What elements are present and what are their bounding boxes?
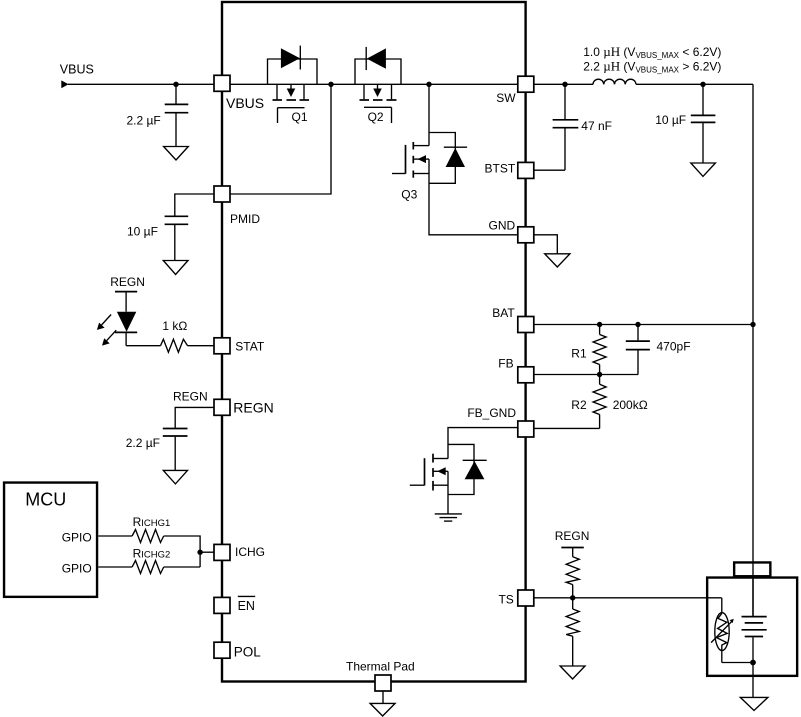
wire REGN cap	[175, 407, 214, 428]
wire GPIO1	[98, 535, 132, 537]
node junction battery negative	[750, 660, 756, 666]
svg-text:RICHG1: RICHG1	[133, 515, 171, 529]
node junction BAT/R1	[597, 322, 602, 327]
wire rail into battery	[752, 576, 754, 616]
wire FB_GND internal	[448, 428, 518, 459]
inductor L1	[565, 83, 593, 85]
svg-text:2.2 µF: 2.2 µF	[127, 113, 161, 127]
svg-text:470pF: 470pF	[657, 339, 691, 353]
battery pack box	[707, 578, 797, 676]
input arrow	[61, 80, 68, 88]
capacitor 2.2uF input	[175, 84, 177, 103]
node junction BAT/470pF	[635, 322, 640, 327]
MCU box	[4, 483, 97, 597]
ground battery	[740, 697, 768, 710]
ground thermal pad	[370, 703, 395, 716]
node junction VBUS/C1	[173, 82, 178, 87]
svg-text:BAT: BAT	[492, 306, 515, 320]
svg-text:FB: FB	[498, 357, 513, 371]
ground output cap	[691, 163, 716, 176]
transistor Q3 body diode	[429, 133, 467, 184]
transistor Q2 body diode	[355, 47, 401, 84]
svg-text:GPIO: GPIO	[62, 562, 92, 576]
node junction L1/10uF	[700, 82, 705, 87]
svg-text:GPIO: GPIO	[62, 531, 92, 545]
svg-text:47 nF: 47 nF	[581, 119, 612, 133]
svg-text:ICHG: ICHG	[235, 545, 265, 559]
resistor R2	[593, 375, 606, 429]
svg-text:REGN: REGN	[555, 529, 590, 543]
ground GND pin	[545, 254, 570, 267]
pin Thermal Pad	[375, 675, 391, 691]
wire GND external	[534, 235, 557, 254]
wire Q4 source to ground	[447, 471, 449, 513]
wire RICHG1 to junction	[164, 536, 200, 567]
capacitor 10uF PMID	[165, 215, 189, 217]
pin PMID	[214, 186, 230, 202]
wire FB_GND external	[534, 427, 600, 429]
pin ICHG	[214, 544, 230, 560]
wire FB	[534, 374, 639, 376]
svg-text:R2: R2	[571, 398, 587, 412]
resistor RT1	[566, 548, 579, 598]
wire LED to R3	[126, 345, 160, 347]
wire TS	[534, 597, 722, 599]
transistor Q1	[273, 84, 310, 123]
svg-text:Q2: Q2	[368, 110, 384, 124]
battery cell BT1	[742, 617, 767, 698]
resistor RICHG1	[132, 530, 164, 543]
pin TS	[518, 590, 534, 606]
svg-text:REGN: REGN	[233, 400, 273, 416]
wire BTST	[534, 169, 565, 171]
capacitor 2.2uF REGN	[163, 428, 188, 430]
svg-text:Q1: Q1	[292, 110, 308, 124]
pin REGN	[214, 399, 230, 415]
svg-text:BTST: BTST	[485, 162, 516, 176]
pin GND	[518, 227, 534, 243]
node junction rail/BAT	[750, 322, 755, 327]
LED D1	[115, 292, 137, 346]
svg-text:MCU: MCU	[25, 489, 66, 509]
svg-text:VBUS: VBUS	[60, 62, 94, 76]
ground TS divider	[560, 666, 585, 679]
capacitor 470pF	[626, 325, 650, 375]
svg-text:TS: TS	[498, 592, 513, 606]
ground input cap	[164, 147, 189, 161]
power rail REGN LED	[115, 291, 137, 293]
transistor Q4 body diode	[448, 444, 487, 494]
svg-text:STAT: STAT	[235, 340, 265, 354]
svg-text:PMID: PMID	[230, 212, 260, 226]
power rail REGN TS	[561, 547, 584, 549]
resistor RT2	[566, 598, 579, 666]
ground REGN cap	[163, 470, 187, 484]
pin BTST	[518, 162, 534, 178]
wire GPIO2	[98, 566, 132, 568]
capacitor 47nF	[564, 84, 566, 119]
wire junction to ICHG pin	[200, 551, 214, 553]
svg-text:10 µF: 10 µF	[655, 113, 686, 127]
svg-text:GND: GND	[489, 219, 516, 233]
svg-text:REGN: REGN	[173, 390, 208, 404]
LED arrow 1	[97, 315, 111, 330]
svg-text:REGN: REGN	[110, 275, 145, 289]
IC body U1	[222, 2, 526, 682]
EN overline	[238, 595, 255, 597]
wire VBUS input	[68, 83, 214, 85]
svg-text:SW: SW	[496, 91, 516, 105]
pin STAT	[214, 338, 230, 354]
resistor RICHG2	[132, 561, 164, 574]
svg-text:1 kΩ: 1 kΩ	[162, 319, 187, 333]
wire right rail SYS	[752, 84, 754, 616]
wire SW external	[534, 83, 565, 85]
thermistor RT	[711, 598, 753, 663]
transistor Q1 body diode	[268, 46, 318, 85]
svg-text:10 µF: 10 µF	[127, 225, 158, 239]
svg-text:R1: R1	[571, 347, 587, 361]
resistor 1 kOhm	[161, 339, 188, 352]
transistor Q2	[360, 84, 397, 123]
transistor Q3	[392, 142, 429, 178]
pin FB_GND	[518, 421, 534, 437]
wire R3 to STAT	[188, 345, 214, 347]
pin VBUS	[214, 75, 230, 91]
LED arrow 2	[102, 330, 116, 345]
wire RICHG2 to junction	[164, 566, 200, 568]
svg-text:FB_GND: FB_GND	[467, 406, 516, 420]
svg-text:EN: EN	[238, 599, 255, 613]
pin BAT	[518, 317, 534, 333]
node junction TS	[570, 595, 575, 600]
pin EN	[214, 597, 230, 613]
svg-text:RICHG2: RICHG2	[133, 547, 171, 561]
svg-text:2.2 µF: 2.2 µF	[126, 436, 160, 450]
wire thermal pad ground	[382, 691, 384, 703]
wire top rail inside IC	[230, 83, 518, 85]
node junction FB/R1/R2	[597, 372, 602, 377]
node junction ICHG	[197, 550, 202, 555]
svg-text:Thermal Pad: Thermal Pad	[346, 660, 415, 674]
wire BAT	[534, 324, 753, 326]
wire Q3 source to GND pin	[429, 159, 518, 235]
node junction Q1-Q2/PMID	[328, 82, 333, 87]
wire PMID cap lead	[175, 194, 214, 216]
pin POL	[214, 642, 230, 658]
wire Q3 drain	[428, 84, 430, 145]
node junction SW/47nF	[562, 82, 567, 87]
resistor R1	[593, 325, 606, 375]
battery tab	[734, 562, 770, 576]
node junction Q2-SW/Q3	[426, 82, 431, 87]
ground PMID cap	[163, 261, 188, 275]
pin SW	[518, 76, 534, 92]
pin FB	[518, 367, 534, 383]
svg-text:200kΩ: 200kΩ	[613, 398, 648, 412]
capacitor 10uF output	[702, 84, 704, 115]
transistor Q4	[410, 454, 448, 491]
svg-text:POL: POL	[234, 645, 262, 660]
ground earth Q4	[435, 514, 462, 521]
svg-text:Q3: Q3	[401, 188, 417, 202]
wire PMID branch	[230, 84, 331, 194]
svg-text:VBUS: VBUS	[226, 95, 264, 111]
